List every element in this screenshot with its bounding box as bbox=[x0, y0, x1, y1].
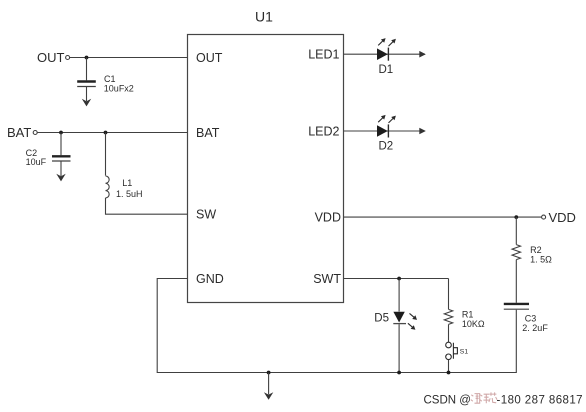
pin GND label (U1 left) bbox=[196, 272, 224, 286]
svg-text:-180 287 86817: -180 287 86817 bbox=[497, 395, 583, 407]
svg-text:OUT: OUT bbox=[196, 51, 223, 65]
switch S1 bbox=[446, 342, 458, 359]
junction on bottom rail at D5 bbox=[397, 371, 401, 375]
junction on VDD wire at R2 bbox=[514, 215, 518, 219]
pin LED1 label (U1 right) bbox=[308, 48, 339, 62]
inductor L1 bbox=[106, 176, 110, 198]
pin VDD label (U1 right) bbox=[315, 210, 341, 224]
svg-text:10KΩ: 10KΩ bbox=[462, 319, 485, 329]
arrow terminal of LED2 wire bbox=[419, 128, 426, 135]
R2 value label bbox=[530, 245, 552, 265]
svg-text:1. 5Ω: 1. 5Ω bbox=[530, 254, 552, 264]
wire C2 to ground bbox=[60, 162, 62, 177]
svg-text:10uF: 10uF bbox=[26, 157, 47, 167]
wire junction down to C2 bbox=[60, 133, 62, 156]
resistor R1 bbox=[444, 309, 452, 324]
junction on OUT wire at C1 bbox=[85, 56, 89, 60]
wire D5 to bottom rail bbox=[398, 324, 400, 372]
wire BAT terminal to U1 BAT pin bbox=[37, 132, 187, 134]
node BAT terminal label bbox=[7, 125, 31, 140]
capacitor C1 bbox=[77, 82, 96, 87]
svg-text:R2: R2 bbox=[530, 245, 542, 255]
wire U1 LED2 pin to D2 bbox=[344, 130, 426, 132]
svg-text:1. 5uH: 1. 5uH bbox=[116, 189, 143, 199]
D1 reference label bbox=[379, 64, 394, 76]
pin SW label (U1 left) bbox=[196, 208, 216, 222]
node BAT terminal circle bbox=[33, 131, 37, 135]
pin OUT label (U1 left) bbox=[196, 51, 223, 65]
wire rail junction down to ground bbox=[268, 373, 270, 395]
svg-text:OUT: OUT bbox=[37, 50, 65, 65]
capacitor C2 bbox=[52, 156, 71, 161]
D1 light emission arrows bbox=[378, 38, 396, 46]
svg-text:LED2: LED2 bbox=[308, 124, 339, 138]
C2 value label bbox=[26, 148, 47, 167]
svg-text:10uFx2: 10uFx2 bbox=[104, 84, 134, 94]
svg-text:D1: D1 bbox=[379, 64, 394, 76]
svg-text:CSDN @: CSDN @ bbox=[424, 395, 471, 407]
node OUT terminal circle bbox=[66, 56, 70, 60]
junction on BAT wire at L1 bbox=[104, 131, 108, 135]
svg-text:SW: SW bbox=[196, 208, 216, 222]
C1 value label bbox=[104, 74, 134, 94]
svg-text:C3: C3 bbox=[525, 313, 537, 323]
wire U1 SWT pin to R1 branch bbox=[344, 278, 449, 280]
wire OUT terminal to U1 OUT pin bbox=[70, 57, 188, 59]
pin SWT label (U1 right) bbox=[313, 272, 341, 286]
svg-text:VDD: VDD bbox=[315, 210, 341, 224]
ground below bottom rail bbox=[264, 392, 273, 400]
svg-text:SWT: SWT bbox=[313, 272, 341, 286]
svg-text:2. 2uF: 2. 2uF bbox=[522, 323, 548, 333]
wire SWT junction down to D5 bbox=[398, 279, 400, 312]
svg-text:VDD: VDD bbox=[549, 210, 576, 225]
wire U1 LED1 pin to D1 bbox=[344, 53, 426, 55]
resistor R2 bbox=[512, 245, 520, 260]
svg-text:S1: S1 bbox=[460, 349, 469, 356]
node VDD terminal circle bbox=[542, 215, 546, 219]
capacitor C3 bbox=[504, 304, 529, 309]
wire BAT junction down to L1 bbox=[105, 133, 107, 176]
LED D5 bbox=[393, 312, 406, 324]
junction on bottom rail at ground bbox=[267, 371, 271, 375]
D5 light emission arrows bbox=[408, 313, 417, 329]
junction on bottom rail at S1 bbox=[447, 371, 451, 375]
LED D1 bbox=[377, 48, 388, 61]
R1 value label bbox=[462, 310, 485, 329]
LED D2 bbox=[377, 124, 388, 137]
wire C1 to ground bbox=[86, 87, 88, 101]
wire L1 bottom to U1 SW pin bbox=[106, 198, 188, 214]
ground below C2 bbox=[56, 174, 65, 182]
U1 reference label bbox=[255, 9, 273, 25]
wire junction down to C1 bbox=[86, 58, 88, 81]
wire R2 to C3 bbox=[515, 260, 517, 303]
svg-text:D5: D5 bbox=[374, 313, 389, 325]
wire U1 VDD pin to VDD terminal bbox=[344, 216, 542, 218]
watermark text bbox=[424, 395, 583, 407]
watermark CJK glyphs (drawn) bbox=[471, 392, 497, 403]
S1 reference label bbox=[460, 349, 469, 356]
svg-text:U1: U1 bbox=[255, 9, 273, 25]
svg-text:GND: GND bbox=[196, 272, 224, 286]
ground below C1 bbox=[82, 99, 91, 107]
wire U1 GND pin to bottom rail and bottom rail to C3 bottom bbox=[157, 279, 516, 373]
svg-text:BAT: BAT bbox=[7, 125, 31, 140]
wire S1 to bottom rail bbox=[448, 360, 450, 373]
op-amp U1 (IC body) bbox=[188, 35, 344, 303]
wire SWT corner down to R1 bbox=[448, 279, 450, 310]
svg-text:D2: D2 bbox=[379, 141, 394, 153]
L1 value label bbox=[116, 178, 143, 199]
D2 reference label bbox=[379, 141, 394, 153]
wire R1 to switch S1 bbox=[448, 324, 450, 342]
D5 reference label bbox=[374, 313, 389, 325]
svg-text:L1: L1 bbox=[122, 178, 132, 188]
node VDD terminal label bbox=[549, 210, 576, 225]
D2 light emission arrows bbox=[378, 115, 396, 123]
svg-text:BAT: BAT bbox=[196, 126, 220, 140]
junction on BAT wire at C2 bbox=[59, 131, 63, 135]
C3 value label bbox=[522, 313, 548, 333]
node OUT terminal label bbox=[37, 50, 65, 65]
arrow terminal of LED1 wire bbox=[419, 51, 426, 58]
junction on SWT wire at D5 bbox=[397, 277, 401, 281]
pin LED2 label (U1 right) bbox=[308, 124, 339, 138]
svg-text:LED1: LED1 bbox=[308, 48, 339, 62]
svg-text:C1: C1 bbox=[104, 74, 116, 84]
wire VDD junction down to R2 bbox=[515, 217, 517, 244]
pin BAT label (U1 left) bbox=[196, 126, 220, 140]
